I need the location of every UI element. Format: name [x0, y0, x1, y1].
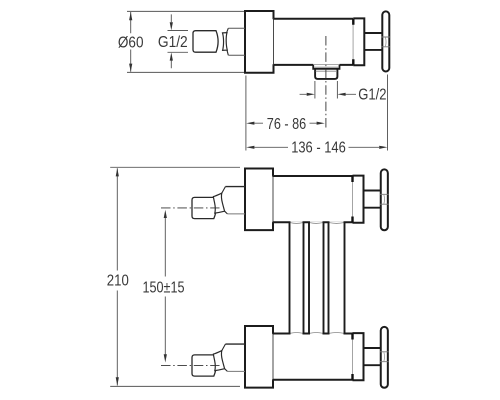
- handle hub lines (top view): [382, 37, 391, 47]
- svg-text:G1/2: G1/2: [358, 87, 386, 104]
- outlet flange (top view): [313, 65, 339, 69]
- svg-text:210: 210: [107, 273, 129, 290]
- pipe openings in body edges: [291, 221, 344, 334]
- svg-text:136 - 146: 136 - 146: [291, 140, 346, 157]
- top valve: [161, 169, 389, 231]
- outlet centerline: [325, 36, 327, 128]
- dim 150±15 line with arrows: [164, 217, 166, 357]
- bonnet junction ticks (top view): [352, 19, 354, 65]
- bonnet (top view): [353, 18, 364, 65]
- dim 210 line with arrows: [116, 168, 118, 385]
- riser pipe 2: [309, 222, 324, 333]
- riser pipe 3: [329, 222, 345, 333]
- dim G1/2 arrows: [170, 14, 172, 68]
- dim G1/2 extension lines: [168, 31, 189, 53]
- faucet body (top view): [274, 19, 354, 65]
- svg-text:G1/2: G1/2: [158, 34, 188, 51]
- pipe chamfers (top view): [227, 28, 229, 55]
- handle bar (top view): [382, 11, 389, 71]
- dim 76-86 line: [255, 122, 317, 124]
- svg-text:76 - 86: 76 - 86: [267, 116, 306, 133]
- outlet nut (top view): [315, 69, 337, 79]
- pipe fillet arcs: [290, 223, 343, 334]
- svg-text:150±15: 150±15: [143, 280, 185, 297]
- handle stem (top view): [364, 33, 382, 50]
- riser pipe 1: [290, 222, 304, 333]
- handle extension line (right): [387, 75, 389, 151]
- wall extension line (left): [245, 76, 247, 151]
- dim 210 extension lines: [110, 167, 240, 386]
- pipe lines (top view): [228, 28, 245, 55]
- escutcheon block (top view): [245, 11, 274, 73]
- dim 136-146 line: [255, 146, 380, 148]
- bottom valve: [161, 326, 389, 388]
- supply fitting (top view): [193, 31, 218, 53]
- dim G1/2 (outlet) extension lines: [315, 81, 338, 99]
- dim Ø60 line with arrows: [130, 12, 132, 72]
- dim Ø60 extension lines: [127, 11, 245, 72]
- waist coupling (top view): [223, 33, 228, 51]
- dim G1/2 (outlet) arrows: [300, 93, 356, 95]
- svg-text:Ø60: Ø60: [118, 34, 144, 51]
